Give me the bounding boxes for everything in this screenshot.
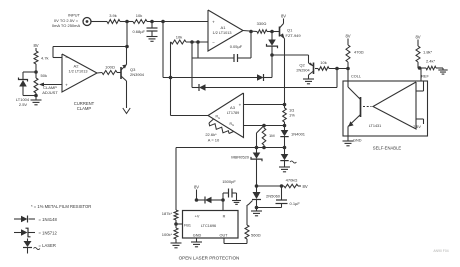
svg-text:10k: 10k xyxy=(136,13,142,18)
svg-text:2N5060: 2N5060 xyxy=(266,194,281,199)
svg-text:8V: 8V xyxy=(194,185,199,190)
svg-text:G: G xyxy=(232,123,234,127)
svg-text:−: − xyxy=(212,40,215,45)
svg-text:= LASER: = LASER xyxy=(39,243,56,248)
svg-text:1M: 1M xyxy=(269,133,275,138)
svg-text:2N2904: 2N2904 xyxy=(296,68,309,72)
svg-text:1.8k*: 1.8k* xyxy=(423,50,433,55)
svg-text:= 1N5712: = 1N5712 xyxy=(39,230,58,235)
svg-text:LT1431: LT1431 xyxy=(369,124,382,128)
svg-text:LTC1696: LTC1696 xyxy=(201,224,216,228)
svg-text:ADJUST: ADJUST xyxy=(42,90,58,95)
svg-text:8V: 8V xyxy=(303,184,308,189)
svg-text:2.4k*: 2.4k* xyxy=(426,59,436,64)
svg-text:+V: +V xyxy=(195,215,200,219)
svg-text:REF: REF xyxy=(421,75,429,79)
svg-text:R: R xyxy=(223,215,226,219)
svg-text:2.5V: 2.5V xyxy=(413,125,421,129)
svg-text:OPEN LASER PROTECTION: OPEN LASER PROTECTION xyxy=(179,256,240,261)
svg-text:FZT-949: FZT-949 xyxy=(286,33,302,38)
svg-text:10k: 10k xyxy=(320,60,326,65)
svg-text:50k: 50k xyxy=(41,73,47,78)
svg-text:4.7k: 4.7k xyxy=(41,56,49,61)
svg-text:INPUT: INPUT xyxy=(68,13,81,18)
svg-text:1/2 LT1013: 1/2 LT1013 xyxy=(213,31,232,35)
svg-text:1/2 LT1013: 1/2 LT1013 xyxy=(69,70,88,74)
svg-text:A1: A1 xyxy=(221,25,227,30)
svg-text:COLL: COLL xyxy=(351,75,361,79)
svg-text:A = 10: A = 10 xyxy=(208,137,220,142)
svg-text:−: − xyxy=(65,55,68,60)
svg-text:100k*: 100k* xyxy=(162,232,173,237)
svg-text:8V: 8V xyxy=(33,43,38,48)
svg-text:330Ω: 330Ω xyxy=(257,21,267,26)
svg-text:Q1: Q1 xyxy=(287,28,293,33)
svg-text:GND: GND xyxy=(353,139,362,143)
svg-text:SELF-ENABLE: SELF-ENABLE xyxy=(373,146,402,151)
svg-text:470Ω: 470Ω xyxy=(354,50,364,55)
svg-text:+: + xyxy=(239,103,242,108)
svg-text:2.5V: 2.5V xyxy=(19,102,28,107)
svg-text:10k: 10k xyxy=(176,35,182,40)
svg-text:1N4001: 1N4001 xyxy=(291,132,306,137)
svg-text:100Ω: 100Ω xyxy=(105,65,115,70)
svg-text:0.05µF: 0.05µF xyxy=(230,44,243,49)
svg-text:GND: GND xyxy=(193,234,202,238)
svg-text:= 1N4148: = 1N4148 xyxy=(39,217,58,222)
svg-text:LT1789: LT1789 xyxy=(227,111,240,115)
svg-text:A3: A3 xyxy=(230,105,236,110)
svg-text:1500pF: 1500pF xyxy=(222,179,236,184)
svg-text:470kΩ: 470kΩ xyxy=(286,178,298,183)
svg-text:G: G xyxy=(218,116,220,120)
svg-text:8V: 8V xyxy=(415,35,420,40)
svg-text:Q2: Q2 xyxy=(299,63,305,68)
svg-text:560Ω: 560Ω xyxy=(251,233,261,238)
svg-text:0.1µF: 0.1µF xyxy=(290,201,301,206)
svg-text:CLAMP: CLAMP xyxy=(77,106,92,111)
svg-text:3.9k: 3.9k xyxy=(109,13,117,18)
svg-text:+: + xyxy=(65,82,68,87)
svg-text:2N3904: 2N3904 xyxy=(130,72,145,77)
svg-text:8V: 8V xyxy=(281,14,286,19)
svg-text:187k*: 187k* xyxy=(162,211,173,216)
svg-text:8V: 8V xyxy=(345,34,350,39)
svg-text:A2: A2 xyxy=(74,64,80,69)
svg-text:0.68µF: 0.68µF xyxy=(132,29,145,34)
svg-text:+: + xyxy=(212,19,215,24)
svg-text:AN90 F04: AN90 F04 xyxy=(433,249,448,253)
svg-text:* = 1% METAL FILM RESISTOR: * = 1% METAL FILM RESISTOR xyxy=(31,204,91,209)
svg-text:0mA TO 250mA: 0mA TO 250mA xyxy=(52,23,81,28)
svg-text:MBR0520: MBR0520 xyxy=(231,155,250,160)
svg-text:1%: 1% xyxy=(289,113,295,118)
svg-text:FB1: FB1 xyxy=(184,224,191,228)
svg-text:OUT: OUT xyxy=(219,234,228,238)
